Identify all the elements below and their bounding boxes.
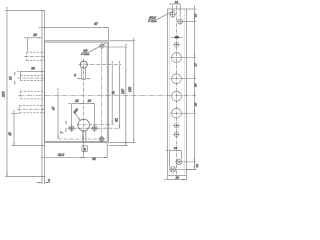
svg-text:19: 19 <box>88 99 92 103</box>
svg-text:24: 24 <box>193 83 197 88</box>
lock case outer rectangle <box>45 41 109 143</box>
hidden stack 3 <box>21 91 45 99</box>
dim 26 top-left <box>28 37 43 39</box>
lock case inner rectangle <box>45 42 108 141</box>
left square spindle hole <box>69 126 74 131</box>
big hole 2 <box>172 74 182 84</box>
bottom crossed hole B <box>170 167 176 173</box>
svg-text:Ø10: Ø10 <box>72 107 79 115</box>
svg-text:14: 14 <box>9 76 13 80</box>
keyhole leader Ø10 <box>75 113 81 121</box>
dim C 130 full case height <box>133 41 135 142</box>
svg-text:76: 76 <box>112 91 116 95</box>
bottom width dim <box>168 179 187 181</box>
svg-text:7: 7 <box>60 131 64 133</box>
svg-text:87: 87 <box>94 22 98 26</box>
squares horizontal centerline <box>68 127 122 129</box>
dim B 104 right of body <box>125 47 127 146</box>
dim 19/15 above squares <box>72 103 84 105</box>
top dim 10 <box>173 3 181 5</box>
dim 36 left <box>20 70 44 72</box>
svg-text:4 отв.: 4 отв. <box>81 52 90 56</box>
keyhole horizontal centerline <box>77 124 114 126</box>
svg-text:216: 216 <box>2 91 6 98</box>
plate vertical centerline <box>176 6 178 179</box>
big hole 3 <box>172 91 182 101</box>
small hole with dot <box>174 42 179 47</box>
stack 3 centerline <box>18 95 196 97</box>
bottom dims 63.5 / 32 <box>45 157 84 159</box>
small hole with dot 3 <box>174 132 178 136</box>
dim 87 top <box>42 27 109 29</box>
svg-text:22: 22 <box>175 176 180 180</box>
svg-text:42: 42 <box>8 132 12 136</box>
dim A 76 right of body <box>111 65 113 125</box>
svg-text:32: 32 <box>92 157 96 161</box>
svg-text:3: 3 <box>48 178 50 182</box>
faceplate strip (edge view, main view left) <box>42 10 45 176</box>
small dim 7 between centerlines <box>65 121 67 125</box>
slot width dim arrows <box>77 78 82 80</box>
bottom screw hole <box>99 137 104 142</box>
plate hole 1 crossed <box>170 12 175 17</box>
upper keyhole circle <box>80 61 87 68</box>
svg-text:27: 27 <box>193 63 197 68</box>
dark slot <box>171 36 183 38</box>
M5 leader <box>89 43 106 52</box>
svg-text:4 отв.: 4 отв. <box>148 19 157 23</box>
deadbolt hidden stack <box>20 76 44 81</box>
bottom stagger dim <box>169 149 181 151</box>
deadbolt centerline <box>18 77 45 79</box>
main keyhole circle <box>78 119 90 131</box>
screw holes vertical axis <box>101 50 103 136</box>
latch bolt hidden stack <box>27 52 45 60</box>
section label box <box>82 146 87 152</box>
svg-text:63.5: 63.5 <box>58 153 64 157</box>
left dim 42 lower <box>13 113 15 146</box>
left dim 14 bolt thickness <box>14 72 16 76</box>
bend dotted lines <box>168 11 170 175</box>
svg-text:127: 127 <box>121 89 125 95</box>
stack 4 centerline <box>17 108 44 110</box>
svg-text:20: 20 <box>193 103 197 108</box>
main keyhole slot <box>82 131 84 142</box>
upper keyhole slot <box>81 67 83 79</box>
svg-text:16: 16 <box>174 146 178 150</box>
svg-text:5: 5 <box>74 73 76 77</box>
dim 3 faceplate thickness <box>41 176 43 184</box>
svg-text:10: 10 <box>175 0 179 4</box>
right dim chain <box>183 9 196 169</box>
big hole 1 <box>172 53 182 63</box>
svg-text:16: 16 <box>194 14 198 18</box>
svg-text:130: 130 <box>128 87 132 93</box>
svg-text:82: 82 <box>114 118 118 122</box>
svg-text:Б: Б <box>83 147 86 151</box>
bottom crossed hole A <box>176 159 182 165</box>
latch centerline <box>24 55 44 57</box>
hidden stack 4 <box>20 106 45 113</box>
svg-text:47: 47 <box>52 107 56 111</box>
leader Ø5.5 4 holes <box>157 10 175 19</box>
bottom extension line <box>5 175 46 177</box>
big hole 4 <box>172 108 182 118</box>
small hole with dot 2 <box>174 124 178 128</box>
dim 47 inside body <box>57 92 59 140</box>
RIGHT VIEW: faceplate front <box>168 9 187 176</box>
plate hole 2 crossed <box>178 19 183 24</box>
dim D 82 keyhole-to-squares <box>119 65 121 129</box>
svg-text:26: 26 <box>32 33 37 37</box>
left dim 216 full height <box>6 10 8 176</box>
top extension line <box>5 9 45 11</box>
svg-text:19: 19 <box>75 99 79 103</box>
vertical centerline through keyholes <box>83 59 85 145</box>
top screw hole M5 <box>100 44 104 48</box>
svg-text:36: 36 <box>31 67 35 71</box>
right square spindle hole <box>92 126 97 131</box>
upper keyhole horizontal centerline / dim A extension <box>79 64 121 66</box>
svg-text:10: 10 <box>195 164 199 168</box>
